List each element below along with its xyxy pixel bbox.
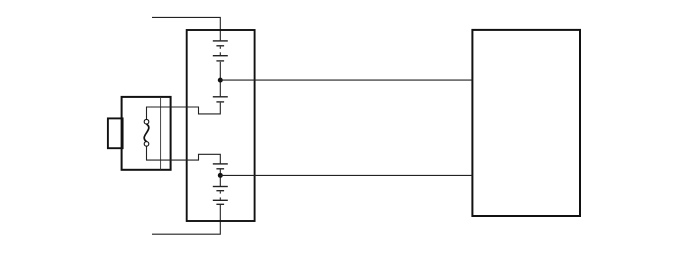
battery B2 cell 1 short plate [216,168,224,170]
battery B1 cell 1 long plate [213,40,228,42]
wire bottom supply lead [152,205,220,234]
battery B2 cell 3 long plate [213,199,228,201]
battery B2 cell 1 long plate [213,163,228,165]
wire node B to battery B2 cell 2 [219,178,221,187]
battery B1 cell 2 long plate [213,55,228,57]
crystal unit X1 package [122,97,171,170]
battery B2 cell 2 long plate [213,186,228,188]
battery B2 cell 2 short plate [216,190,224,192]
battery B1 cell 3 short plate [216,101,224,103]
wire battery B1 cell 2 lead [219,52,221,55]
crystal unit X1 mounting tab [108,118,123,148]
resonator element squiggle [144,124,149,142]
IC block U2 [472,30,580,216]
wire node B to IC input 2 [220,174,472,176]
wire battery B2 cell 2 lead [219,192,221,194]
resonator support pin bottom [144,142,149,147]
battery B1 cell 2 short plate [216,60,224,62]
wire top supply lead [152,17,220,40]
wire battery B2 cell 3 lead [219,197,221,199]
wire crystal bottom terminal to battery B2 [147,147,221,164]
wire battery B1 cell 2 to node A [219,62,221,78]
node B junction dot [218,173,223,178]
wire node A to battery B1 cell 3 [219,82,221,96]
wire node A to IC input 1 [220,79,472,81]
wire battery B1 cell 1 lead [219,47,221,49]
resonator support pin top [144,119,149,124]
crystal unit X1 lid line [160,97,162,170]
battery B1 cell 1 short plate [216,45,224,47]
oscillation circuit block U1 [187,30,255,221]
battery B2 cell 3 short plate [216,203,224,205]
battery B1 cell 3 long plate [213,96,228,98]
node A junction dot [218,78,223,83]
wire battery B2 cell 1 to node B [219,170,221,174]
wire crystal top terminal to battery B1 [147,103,221,120]
